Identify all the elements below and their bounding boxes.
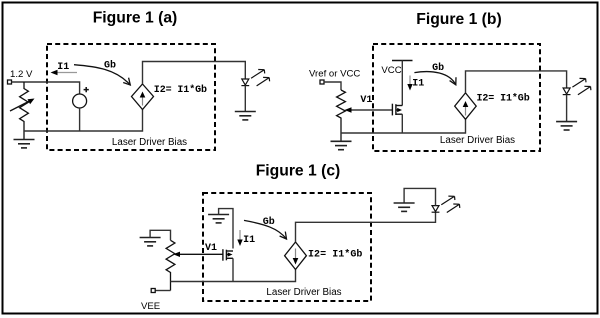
svg-text:1.2 V: 1.2 V: [10, 69, 33, 80]
light arrows (a): [251, 70, 270, 86]
wire ground to Q2 drain (c): [219, 209, 233, 249]
wire bottom rail (a): [24, 110, 143, 132]
ground below R1 (a): [14, 140, 35, 148]
svg-text:I1: I1: [412, 79, 424, 90]
wiper arrow of R3 to gate (c): [178, 253, 223, 255]
gain arrow Gb (c): [244, 220, 287, 239]
svg-text:Gb: Gb: [432, 62, 444, 74]
gain arrow Gb (a): [74, 65, 130, 85]
wiper arrow of R2 to gate (b): [349, 109, 392, 111]
ground below R2 (b): [331, 141, 352, 149]
wire Q2 source to rail (c): [232, 258, 234, 281]
svg-text:Figure 1 (c): Figure 1 (c): [256, 163, 341, 180]
wire source bottom to rail (a): [79, 108, 81, 131]
wire I2 top to laser diode (a): [143, 62, 246, 85]
arrow inside I2 source (b), pointing up: [465, 106, 467, 116]
svg-text:I1: I1: [57, 62, 69, 73]
power VCC rail bar (b): [392, 60, 413, 62]
svg-text:Gb: Gb: [104, 60, 116, 72]
dependent current source I2 (b): [455, 93, 477, 119]
wire ground to R3 top (c): [150, 230, 170, 240]
wire bottom rail (c): [171, 270, 296, 282]
current arrow I1 (c): [237, 230, 242, 246]
wire Q1 source to rail (b): [401, 114, 403, 133]
wire I2 top to laser diode (b): [466, 71, 567, 93]
dashed box Laser Driver Bias (a): [47, 44, 215, 150]
MOSFET Q2 (c): [223, 249, 233, 261]
variable resistor R1 (a): [20, 82, 29, 140]
current arrow I1 (a): [51, 70, 78, 75]
arrow inside I2 source (c), pointing down: [295, 249, 297, 259]
ground at R3 top (c): [140, 238, 161, 246]
svg-text:Laser Driver Bias: Laser Driver Bias: [266, 287, 341, 298]
terminal Vref (b): [320, 80, 324, 84]
MOSFET Q1 (b): [392, 104, 402, 116]
svg-text:I2= I1*Gb: I2= I1*Gb: [308, 249, 362, 261]
terminal 1.2 V: [8, 80, 12, 84]
svg-text:Figure 1 (b): Figure 1 (b): [416, 11, 501, 28]
light arrows (b): [572, 78, 591, 94]
dependent current source I2 (c): [285, 242, 307, 270]
current source V+ (a): [73, 94, 87, 108]
ground below diode (a): [235, 112, 256, 120]
laser diode D2 (b): [563, 88, 571, 95]
arrow inside I2 source (a), pointing up: [142, 97, 144, 106]
dependent current source I2 (a): [132, 84, 154, 110]
potentiometer R2 (b): [337, 90, 346, 141]
wire R3 bottom to VEE terminal (c): [155, 290, 170, 292]
wire Vref terminal to R2 top (b): [324, 82, 341, 90]
svg-text:Laser Driver Bias: Laser Driver Bias: [440, 135, 515, 146]
ground above diode (c): [394, 203, 415, 211]
svg-text:V1: V1: [205, 243, 217, 254]
wire I2 top to laser diode (c): [296, 212, 436, 242]
laser diode D1 (a): [241, 79, 249, 86]
svg-text:VEE: VEE: [141, 301, 160, 312]
wire VCC bar to Q1 drain (b): [401, 61, 403, 106]
laser diode D3 (c): [432, 206, 440, 213]
svg-text:I2= I1*Gb: I2= I1*Gb: [154, 84, 207, 96]
svg-text:VCC: VCC: [381, 65, 401, 76]
wire diode to ground (b): [566, 95, 568, 122]
ground below diode (b): [556, 122, 577, 130]
svg-text:I1: I1: [243, 235, 255, 246]
potentiometer R3 (c): [166, 240, 175, 290]
wire bottom rail (b): [341, 119, 466, 133]
current arrow I1 (b): [407, 76, 412, 91]
wire diode to ground (a): [244, 86, 246, 112]
ground at Q2 drain (c): [208, 215, 229, 223]
wire 1.2V terminal to source top: [12, 82, 80, 94]
dashed box Laser Driver Bias (b): [373, 44, 540, 151]
plus sign on source (a): [84, 87, 89, 92]
svg-text:Laser Driver Bias: Laser Driver Bias: [112, 137, 187, 148]
svg-text:V1: V1: [360, 95, 372, 106]
svg-text:Vref or VCC: Vref or VCC: [309, 69, 360, 80]
gain arrow Gb (b): [414, 72, 455, 85]
adjust arrow on R1 (a): [10, 101, 31, 112]
svg-text:Gb: Gb: [263, 216, 275, 228]
dashed box Laser Driver Bias (c): [203, 193, 371, 301]
svg-text:I2= I1*Gb: I2= I1*Gb: [477, 93, 530, 105]
svg-text:Figure 1 (a): Figure 1 (a): [93, 10, 178, 27]
light arrows (c): [441, 196, 460, 212]
body arrow of Q2 (c): [228, 252, 233, 256]
body arrow of Q1 (b): [397, 108, 402, 112]
wire diode anode to ground (c): [404, 188, 435, 205]
terminal VEE: [151, 289, 155, 293]
